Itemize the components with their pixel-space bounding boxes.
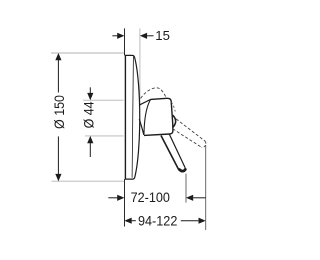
dim D150: top extension line [51, 52, 124, 54]
escutcheon plate back edge [124, 55, 126, 179]
dim D150: line lower segment [57, 136, 59, 174]
dim D150: bottom extension line [52, 180, 125, 182]
cone sleeve bottom line [139, 119, 144, 135]
dim D44: top extension line [83, 99, 124, 101]
extension line at plate front (for dim 15) [139, 28, 141, 106]
extension line below solid lever tip [185, 174, 187, 203]
svg-text:94-122: 94-122 [138, 213, 177, 229]
dim 94-122: right tail [181, 220, 199, 222]
dim D44: top arrow (points down) [87, 93, 93, 100]
lever heel bump (dark crescent) [173, 115, 176, 127]
raised lever lower edge (dashed) [173, 129, 202, 148]
dim D44: bottom tail [89, 143, 91, 157]
cone sleeve top line [140, 99, 151, 104]
dim 72-100: left arrow [117, 195, 124, 201]
dim 15: right arrow [140, 33, 147, 39]
dim 72-100: left tail [108, 197, 117, 199]
handle body / cone junction curve [144, 99, 151, 134]
dim D150: top arrow [55, 53, 61, 60]
escutcheon plate top edge [125, 55, 134, 57]
dim D150: bottom arrow [55, 174, 61, 181]
svg-text:Ø 150: Ø 150 [52, 95, 68, 129]
dim 15: right tail [147, 35, 153, 37]
dim 15: left arrow [117, 33, 124, 39]
dim 94-122: left arrow (points left) [124, 218, 131, 224]
dim D44: bottom arrow (points up) [87, 136, 93, 143]
handle body outline [144, 98, 173, 135]
dim 15: left tail [112, 35, 117, 37]
lever tip cap [180, 169, 186, 171]
svg-text:Ø 44: Ø 44 [81, 101, 97, 128]
dim D150: line upper segment [57, 60, 59, 93]
lever arm (down position) right edge [169, 134, 185, 168]
wall extension line (bottom, below plate) [124, 179, 126, 226]
escutcheon plate front face inner line [132, 57, 133, 178]
dim D44: bottom extension line [85, 135, 124, 137]
dim 94-122: right arrow (points right) [199, 218, 206, 224]
svg-text:15: 15 [155, 28, 170, 43]
dim 72-100: right tail [193, 197, 205, 199]
raised body corner arc beyond solid edge (dashed) [171, 102, 175, 112]
dim D44: top tail [89, 87, 91, 93]
lever arm (down position) left edge [161, 136, 179, 171]
dim 94-122: left tail [132, 220, 136, 222]
wall extension line (top, above plate) [124, 28, 126, 55]
escutcheon plate bottom edge [125, 178, 135, 179]
extension line at raised lever tip [205, 145, 207, 230]
escutcheon plate rim arc [134, 57, 139, 179]
dim 72-100: right arrow [186, 195, 193, 201]
raised lever upper edge (dashed) [176, 119, 205, 141]
raised handle body arc (dashed) [141, 88, 167, 99]
raised lever tip arc (dashed) [202, 142, 206, 148]
svg-text:72-100: 72-100 [131, 190, 170, 206]
